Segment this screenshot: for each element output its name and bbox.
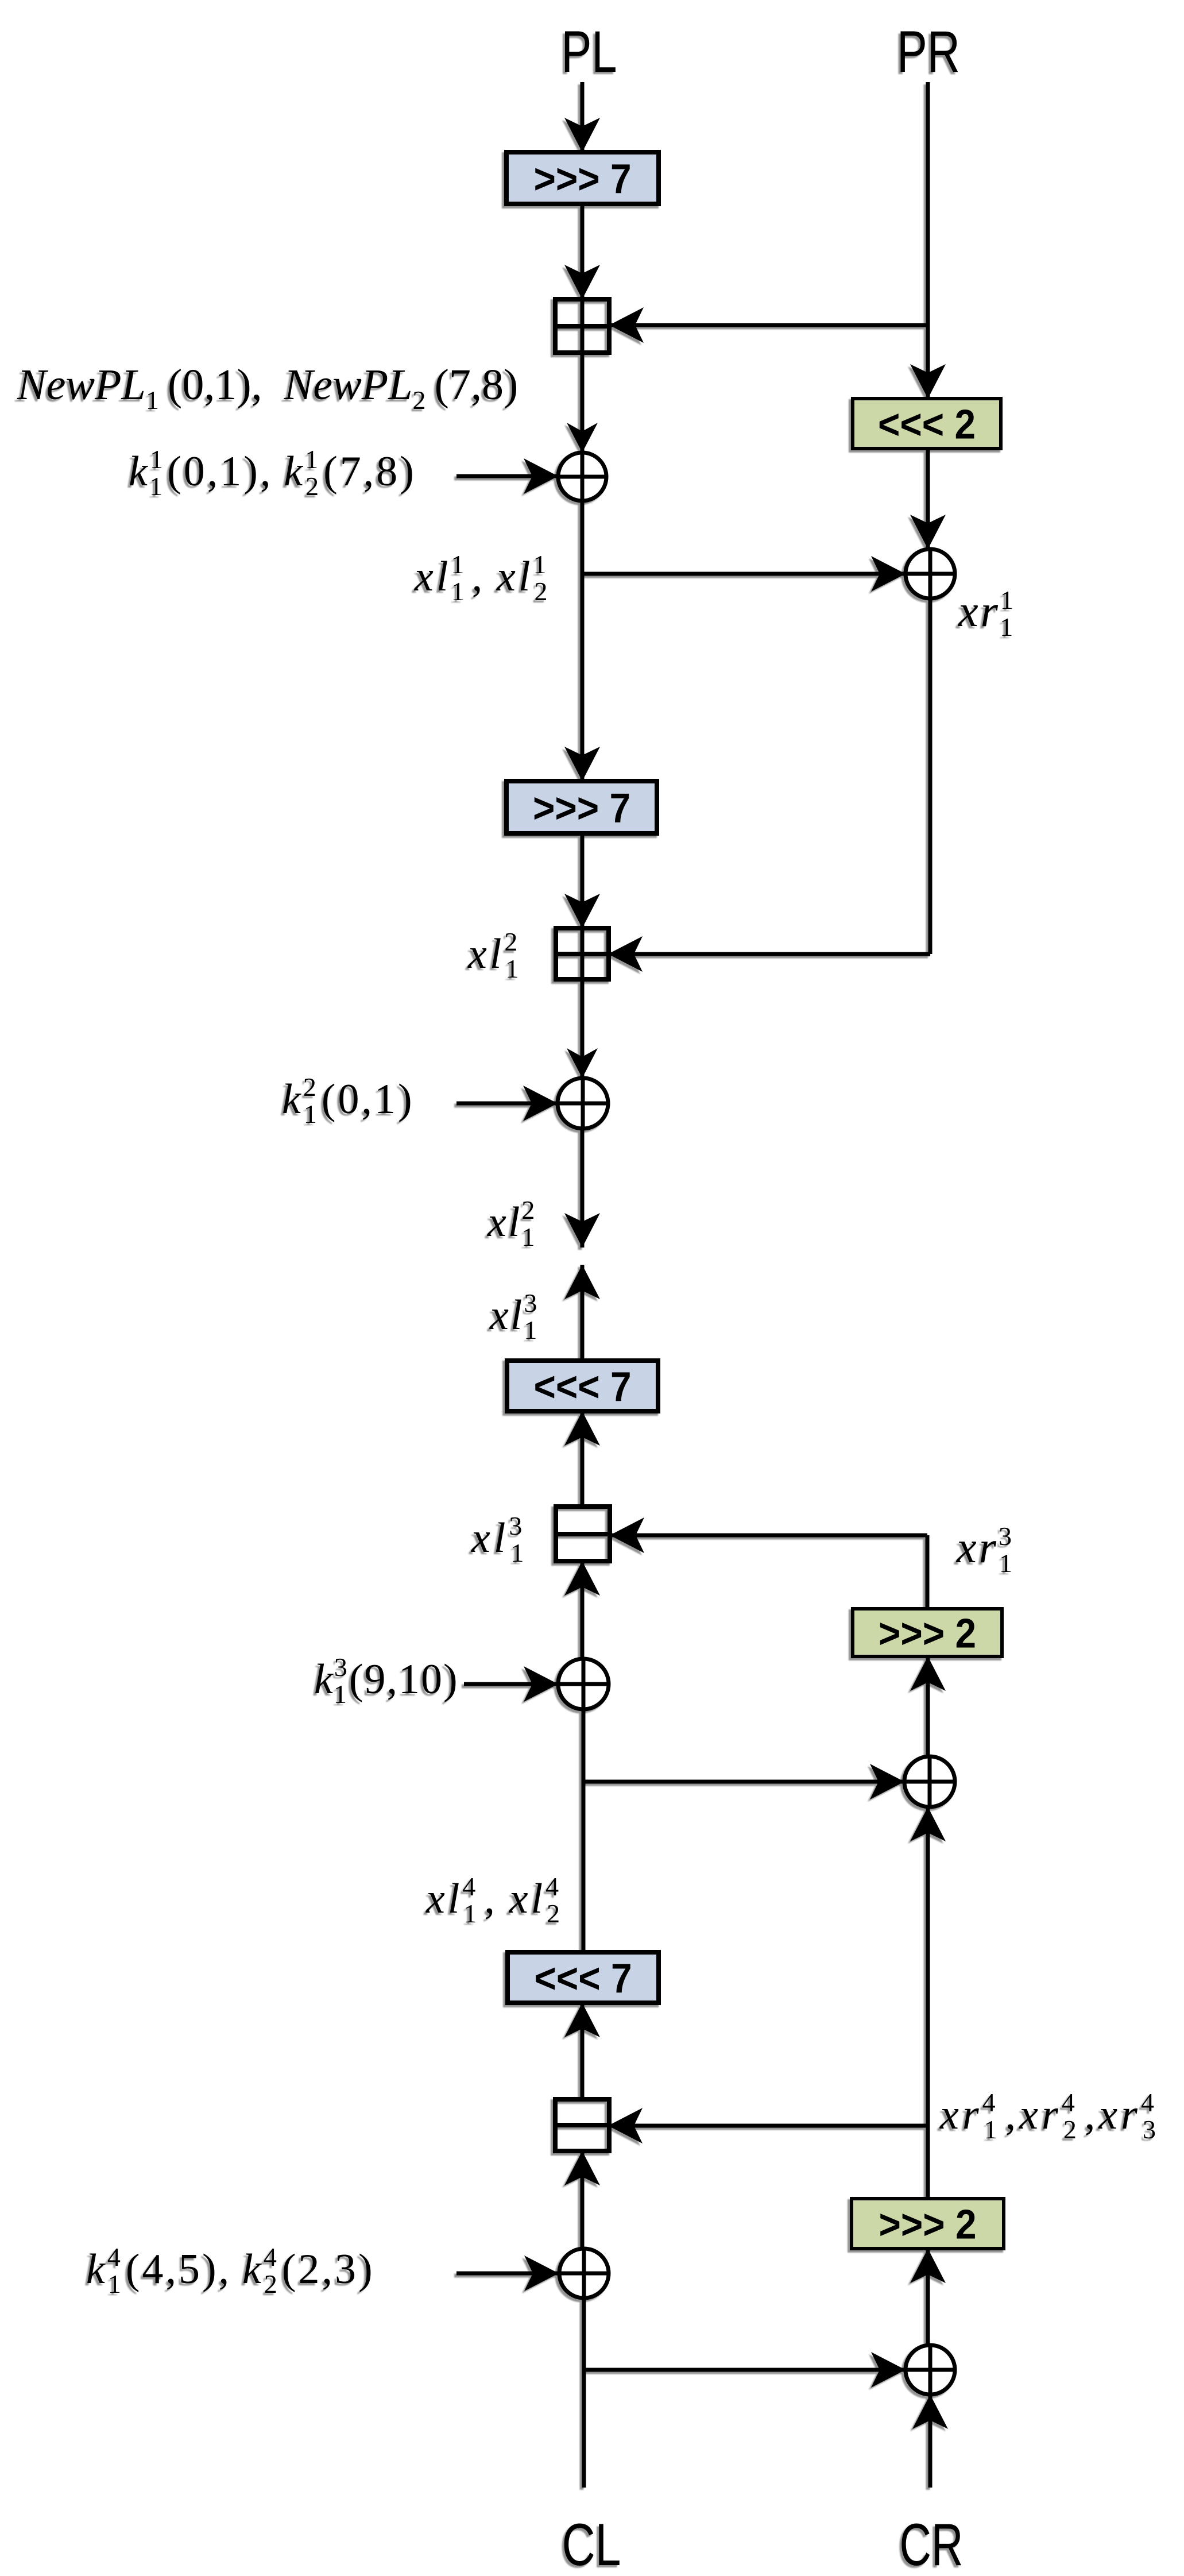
svg-text:<<< 2: <<< 2: [878, 402, 976, 448]
svg-text:xl41​, xl42​: xl41​, xl42​: [425, 1872, 563, 1928]
svg-text:xl31​: xl31​: [489, 1288, 539, 1345]
svg-text:xr31​: xr31​: [956, 1521, 1015, 1578]
svg-text:>>> 7: >>> 7: [534, 156, 632, 202]
svg-text:xl31​: xl31​: [471, 1511, 527, 1567]
svg-text:k31​(9,10): k31​(9,10): [314, 1652, 459, 1709]
svg-text:NewPL1​ (0,1), NewPL2​ (7,8): NewPL1​ (0,1), NewPL2​ (7,8): [17, 361, 518, 415]
svg-text:<<< 7: <<< 7: [535, 1956, 632, 2002]
svg-text:CR: CR: [900, 2512, 964, 2576]
svg-text:k11​(0,1), k12​(7,8): k11​(0,1), k12​(7,8): [129, 445, 416, 501]
svg-text:xl21​: xl21​: [487, 1195, 536, 1252]
svg-text:PL: PL: [562, 19, 617, 84]
svg-text:xr11​: xr11​: [958, 585, 1015, 642]
svg-text:k41​(4,5), k42​(2,3): k41​(4,5), k42​(2,3): [86, 2242, 375, 2299]
svg-text:CL: CL: [562, 2512, 621, 2576]
svg-text:PR: PR: [897, 19, 960, 84]
svg-text:<<< 7: <<< 7: [534, 1364, 632, 1410]
svg-text:xl21​: xl21​: [467, 927, 521, 983]
svg-text:>>> 2: >>> 2: [879, 2202, 977, 2248]
svg-text:>>> 2: >>> 2: [879, 1611, 976, 1657]
svg-text:>>> 7: >>> 7: [533, 786, 630, 832]
svg-text:xr41​,xr42​,xr43​: xr41​,xr42​,xr43​: [939, 2088, 1159, 2144]
svg-text:k21​(0,1): k21​(0,1): [282, 1072, 415, 1129]
svg-text:xl11​, xl12​: xl11​, xl12​: [414, 550, 550, 606]
